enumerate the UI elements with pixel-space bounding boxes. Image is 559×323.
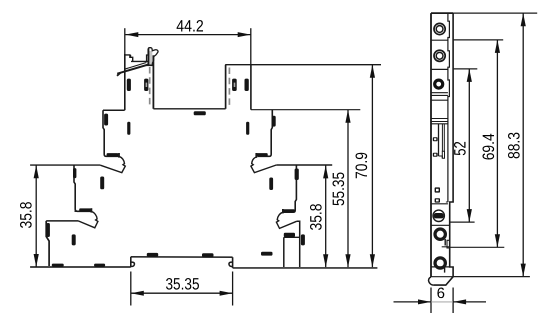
svg-text:69.4: 69.4: [480, 133, 498, 160]
svg-text:35.8: 35.8: [18, 202, 36, 229]
svg-text:35.8: 35.8: [308, 204, 326, 231]
svg-text:6: 6: [437, 285, 445, 302]
svg-text:70.9: 70.9: [353, 152, 371, 179]
svg-text:88.3: 88.3: [506, 132, 524, 159]
svg-text:52: 52: [452, 141, 470, 156]
svg-text:55.35: 55.35: [330, 172, 348, 206]
svg-text:35.35: 35.35: [166, 275, 200, 293]
svg-text:44.2: 44.2: [176, 17, 204, 35]
